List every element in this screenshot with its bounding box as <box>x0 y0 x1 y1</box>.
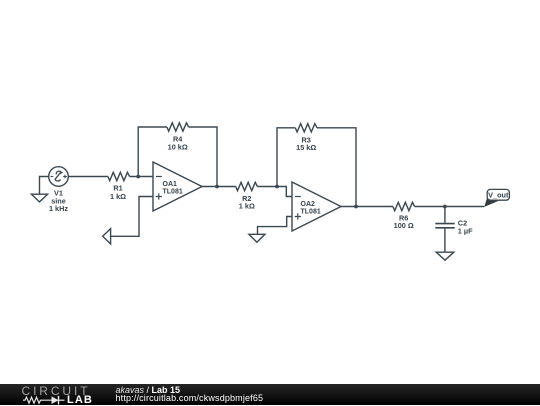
svg-text:TL081: TL081 <box>301 208 321 215</box>
R4 labels <box>168 135 188 152</box>
V1 value labels <box>49 188 68 213</box>
plot title <box>116 386 181 395</box>
svg-text:1 µF: 1 µF <box>458 227 473 236</box>
svg-text:OA1: OA1 <box>163 181 178 188</box>
resistor R4 <box>167 123 189 131</box>
CircuitLab logo wordmark <box>22 385 91 397</box>
svg-text:15 kΩ: 15 kΩ <box>296 143 316 152</box>
node junction (R1 / R4) <box>136 175 140 179</box>
wire OA2 output to R6 <box>341 206 393 208</box>
svg-text:100 Ω: 100 Ω <box>394 221 414 230</box>
wire R4 right/down <box>189 127 217 187</box>
ground (OA2 +) <box>249 234 265 242</box>
resistor R6 <box>393 202 415 210</box>
capacitor C2 <box>435 207 454 253</box>
node junction (R2 / R3) <box>275 185 279 189</box>
node junction (OA1 out / R4) <box>215 185 219 189</box>
svg-text:1 kHz: 1 kHz <box>49 204 68 213</box>
wire R2 to OA2 inverting input (jog) <box>257 187 292 197</box>
resistor R3 <box>295 124 317 132</box>
plot url <box>116 394 264 403</box>
op-amp OA2 <box>292 182 341 231</box>
wire R1 to OA1 inverting input <box>130 176 153 178</box>
resistor R1 <box>108 172 130 180</box>
svg-text:V_out: V_out <box>488 191 509 200</box>
wire V1 left lead <box>40 177 49 194</box>
R1 labels <box>110 184 126 201</box>
OA1 labels <box>163 181 183 195</box>
wire R3 right/down <box>317 128 356 207</box>
ground (OA1 +) <box>103 229 111 244</box>
footer bar <box>0 384 540 405</box>
node junction (OA2 out / R3) <box>354 205 358 209</box>
svg-text:1 kΩ: 1 kΩ <box>110 192 126 201</box>
wire V1 to R1 <box>68 176 108 178</box>
C2 labels <box>458 219 473 236</box>
svg-text:1 kΩ: 1 kΩ <box>239 202 255 211</box>
op-amp OA1 <box>153 162 202 211</box>
R2 labels <box>239 194 255 211</box>
wire R3 loop left/top <box>277 128 295 187</box>
R3 labels <box>296 135 316 152</box>
node junction (R6 / C2) <box>443 205 447 209</box>
ground (C2) <box>436 252 454 260</box>
svg-text:TL081: TL081 <box>163 189 183 196</box>
voltage source V1 <box>49 167 69 187</box>
wire R6 to V_out <box>415 206 485 208</box>
R6 labels <box>394 214 414 231</box>
OA2 labels <box>301 201 321 215</box>
ground (V1) <box>31 194 47 202</box>
net flag V_out <box>484 189 509 207</box>
resistor R2 <box>236 182 258 190</box>
svg-text:OA2: OA2 <box>301 201 316 208</box>
wire R4 loop left/top <box>138 127 167 177</box>
svg-text:10 kΩ: 10 kΩ <box>168 143 188 152</box>
wire OA2 non-inverting input to ground <box>258 217 293 235</box>
logo waveform (resistor + diode) <box>0 384 110 405</box>
wire OA1 output to R2 <box>202 186 236 188</box>
wire OA1 non-inverting input to ground <box>111 197 153 237</box>
